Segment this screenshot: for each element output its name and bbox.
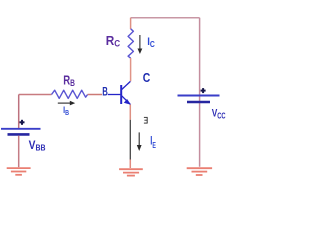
label E (emitter, mirrored narrow glyph) (144, 117, 148, 123)
arrow IB (base current) (58, 101, 75, 106)
transistor Q1 (NPN) (121, 81, 131, 105)
ground (left) (7, 168, 31, 175)
svg-text:IB: IB (63, 105, 69, 117)
emitter lead (122, 96, 131, 105)
battery VCC plus sign (201, 88, 206, 93)
resistor RB (horizontal zigzag) (52, 90, 88, 98)
svg-text:C: C (143, 71, 151, 85)
resistor RC (vertical zigzag) (128, 29, 133, 58)
svg-text:RC: RC (106, 33, 121, 49)
battery VBB positive plate (1, 128, 41, 130)
battery VBB negative plate (8, 133, 30, 136)
ground (right, VCC) (187, 168, 212, 175)
wire: left horizontal from VBB to RB (19, 94, 52, 96)
svg-text:VBB: VBB (29, 138, 46, 153)
svg-text:VCC: VCC (212, 108, 226, 121)
wire: collector branch top segment (130, 18, 132, 29)
wire: emitter red segment below transistor (129, 105, 131, 120)
emitter arrowhead (124, 99, 131, 105)
wire: VBB to ground (18, 136, 20, 168)
wire: right vertical Vcc branch (199, 18, 201, 167)
svg-text:RB: RB (63, 73, 75, 89)
svg-text:IC: IC (147, 36, 155, 49)
wire: top horizontal from collector branch to Vcc branch (131, 17, 200, 19)
arrow IC (current down collector) (138, 35, 143, 54)
wire: base wire blue segment from B to base bar (108, 94, 121, 96)
wire: emitter dark segment (129, 120, 131, 160)
ground (middle, emitter) (119, 169, 143, 175)
arrow IE (emitter current) (137, 132, 142, 151)
battery VCC negative plate (187, 101, 210, 104)
svg-text:IE: IE (150, 135, 156, 150)
svg-text:B: B (102, 85, 108, 99)
collector lead (122, 81, 131, 89)
wire: collector lead (red) below RC (130, 58, 132, 81)
wire: emitter red segment to ground (129, 160, 131, 169)
battery VBB plus sign (20, 120, 25, 125)
battery VCC positive plate (178, 95, 220, 97)
base bar (120, 85, 122, 104)
wire: red segment RB to B (88, 94, 102, 96)
wire: left vertical down to VBB battery (18, 95, 20, 129)
